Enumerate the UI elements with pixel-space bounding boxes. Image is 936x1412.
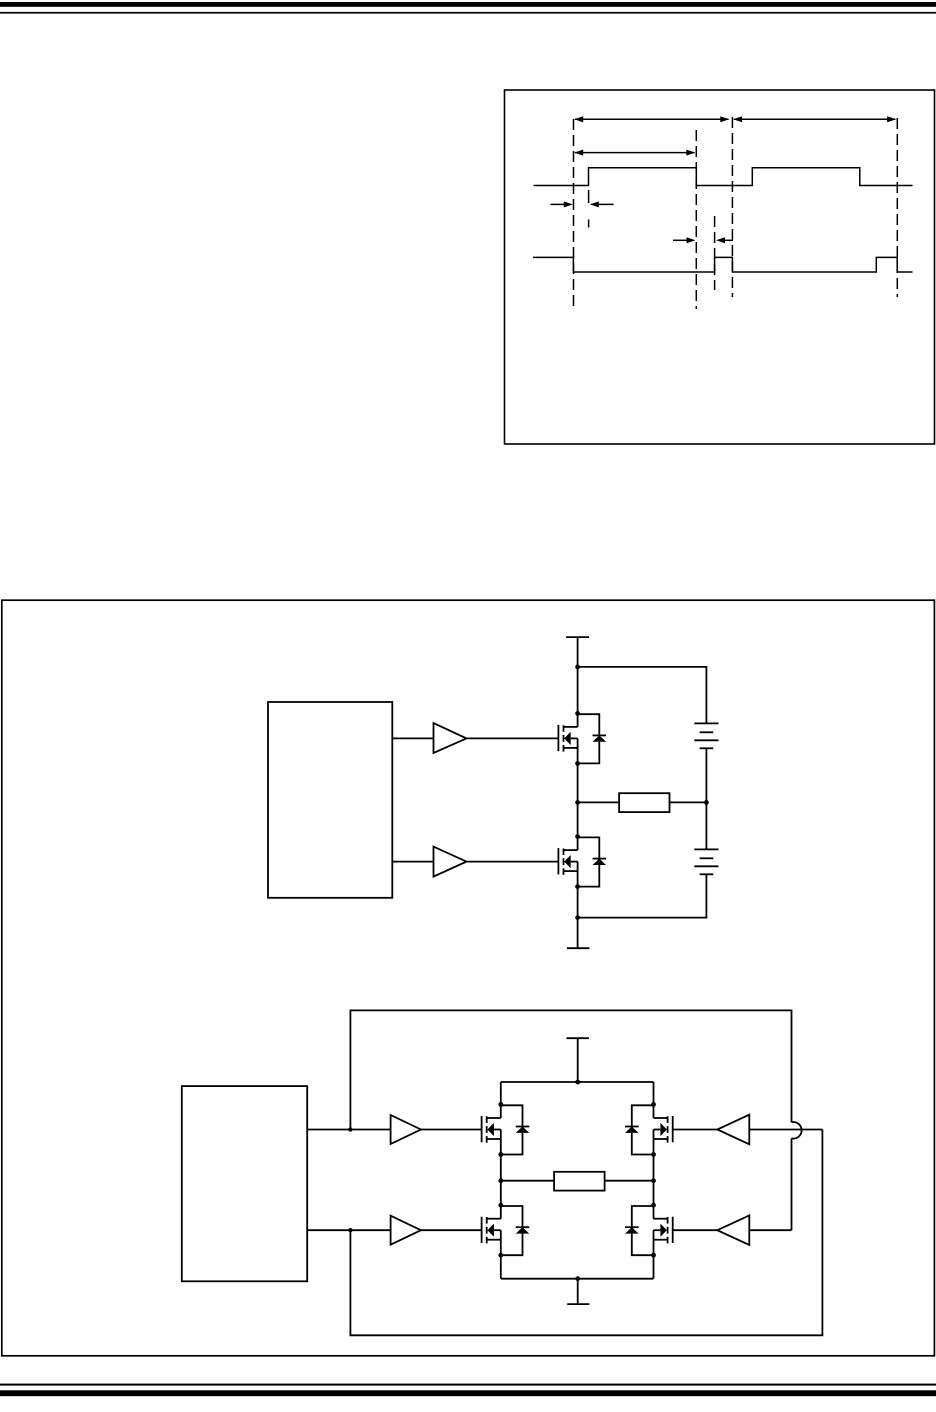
schematic 2: H-bridge driver	[182, 1010, 823, 1335]
waveform output signal	[533, 257, 913, 272]
delay arrow right-pointing	[551, 201, 573, 207]
ground bar	[567, 947, 590, 949]
wire Q4 gate lead	[673, 1129, 718, 1131]
transistor Q2 with body diode D2	[558, 834, 606, 889]
node out right	[651, 1178, 656, 1183]
battery B1	[694, 723, 718, 748]
wire A4 to Q5 gate	[421, 1229, 482, 1231]
delay arrow 2 right-pointing	[673, 237, 696, 243]
IC box U2	[182, 1086, 307, 1281]
dashed ref line 4	[714, 216, 716, 290]
ground bar	[567, 1303, 589, 1305]
dashed ref line 6	[896, 118, 898, 297]
dimension arrow pulse width	[574, 150, 695, 156]
wire Q3 source to Q5 drain	[500, 1155, 502, 1206]
dashed ref line 3	[695, 130, 697, 309]
wire hop over A5 input	[792, 1122, 802, 1139]
wire U2 to buffer A3	[307, 1129, 390, 1131]
ground rail	[501, 1278, 654, 1280]
wire Q4 source to Q6 drain	[653, 1155, 655, 1206]
wire Q1 source to Q2 drain	[577, 763, 579, 836]
wire Q6 source to ground rail	[653, 1255, 655, 1279]
wire A1 to Q1 gate	[467, 737, 559, 739]
wire rail to ground	[577, 1279, 579, 1304]
supply rail bar	[566, 636, 589, 638]
wire A5 input	[749, 1129, 822, 1131]
dashed ref line 2	[588, 190, 590, 203]
wire supply node to battery B1	[578, 667, 707, 724]
wire A2 to Q2 gate	[467, 861, 559, 863]
timing diagram	[533, 116, 913, 309]
node B	[348, 1228, 352, 1232]
supply bar	[567, 1037, 589, 1039]
buffer A2	[434, 847, 467, 877]
transistor Q3 with body diode D3	[482, 1102, 530, 1157]
wire U2 to buffer A4	[307, 1229, 390, 1231]
node A	[348, 1127, 352, 1131]
buffer A4	[391, 1216, 421, 1245]
buffer A3	[391, 1115, 421, 1144]
node phase	[575, 800, 580, 805]
wire supply to Q1 drain	[577, 637, 579, 713]
node ground rail	[575, 1276, 580, 1281]
wire U1 to buffer A1	[392, 737, 433, 739]
wire A6 input	[749, 1229, 791, 1231]
node supply	[575, 665, 580, 670]
schematic 1: half-bridge driver	[268, 637, 719, 948]
wire rail to Q3 drain	[500, 1082, 502, 1105]
dashed ref line 5	[731, 117, 733, 297]
cross feedback wire top lower segment	[791, 1138, 793, 1230]
wire Q5 source to ground rail	[500, 1255, 502, 1279]
inverting buffer A5	[717, 1115, 749, 1145]
wire A3 to Q3 gate	[421, 1129, 482, 1131]
wire R1 to battery node	[670, 801, 707, 803]
wire node to resistor R2	[501, 1180, 554, 1182]
delay arrow 2 left-pointing	[716, 237, 733, 243]
transistor Q4 with body diode D4 (mirrored)	[625, 1102, 673, 1157]
cross feedback wire bottom	[350, 1130, 822, 1336]
delay arrow left-pointing	[590, 201, 614, 207]
buffer A1	[434, 723, 467, 753]
node battery mid	[704, 800, 709, 805]
resistor R2	[554, 1172, 605, 1191]
dimension arrow period 1	[574, 116, 729, 122]
wire rail to Q4 drain	[653, 1082, 655, 1105]
node ground	[575, 915, 580, 920]
waveform input signal	[534, 168, 913, 186]
supply rail	[501, 1081, 654, 1083]
wire node to battery B2	[705, 802, 707, 849]
wire U1 to buffer A2	[392, 861, 433, 863]
wire node to resistor R1	[578, 801, 620, 803]
resistor R1	[619, 793, 669, 812]
wire Q6 gate lead	[673, 1229, 718, 1231]
transistor Q6 with body diode D6 (mirrored)	[625, 1203, 673, 1258]
wire supply to rail	[577, 1038, 579, 1082]
wire Q2 source to ground	[577, 887, 579, 949]
node out left	[498, 1178, 503, 1183]
transistor Q1 with body diode D1	[558, 711, 606, 766]
node supply rail	[575, 1080, 580, 1085]
wire R2 to right node	[605, 1180, 654, 1182]
IC box U1	[268, 702, 392, 898]
inverting buffer A6	[717, 1215, 749, 1245]
battery B2	[694, 849, 718, 874]
cross feedback wire top	[350, 1010, 791, 1129]
dimension arrow period 2	[733, 116, 896, 122]
dashed ref line 1	[573, 119, 575, 309]
wire B2 to ground node	[578, 874, 707, 917]
transistor Q5 with body diode D5	[482, 1203, 530, 1258]
wire B1 to node	[705, 748, 707, 802]
